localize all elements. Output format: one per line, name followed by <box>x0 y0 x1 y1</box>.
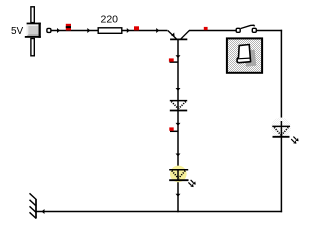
current arrow <box>176 123 181 126</box>
LED D3 emission arrows <box>291 137 298 144</box>
transistor Q1 <box>168 31 190 40</box>
current arrow <box>57 28 60 33</box>
current arrow <box>176 55 181 58</box>
LED D3 glow (off) <box>271 118 291 138</box>
terminal node <box>47 28 51 32</box>
diode D1 <box>170 101 187 111</box>
current arrow <box>176 154 181 157</box>
probe marker C <box>204 27 208 30</box>
current arrow <box>127 28 130 33</box>
battery B1 (5V power supply) <box>25 7 41 56</box>
switch SW1 open <box>236 25 256 32</box>
svg-text:220: 220 <box>101 14 119 26</box>
probe marker E <box>169 127 178 131</box>
LED D2 glow (lit yellow) <box>170 166 187 183</box>
current arrow <box>156 28 159 33</box>
wire switch to right rail <box>256 30 282 32</box>
probe marker A <box>66 24 71 31</box>
current arrow <box>176 194 181 197</box>
wire right rail vertical <box>280 30 282 212</box>
wire middle vertical <box>177 40 179 213</box>
wire bottom rail <box>36 211 282 213</box>
resistor R1 <box>98 28 122 34</box>
LED D2 emission arrows <box>188 180 195 187</box>
LED D3 <box>272 121 290 137</box>
switch picture box <box>227 38 262 72</box>
probe marker D <box>169 58 178 62</box>
current arrow <box>87 28 90 33</box>
current arrow <box>42 209 45 214</box>
current arrow <box>176 88 181 91</box>
probe marker B <box>134 26 139 30</box>
LED D2 <box>169 170 188 180</box>
wire collector to switch <box>189 30 236 32</box>
svg-text:5V: 5V <box>11 26 24 37</box>
wire top rail <box>51 30 168 32</box>
ground <box>30 193 37 218</box>
